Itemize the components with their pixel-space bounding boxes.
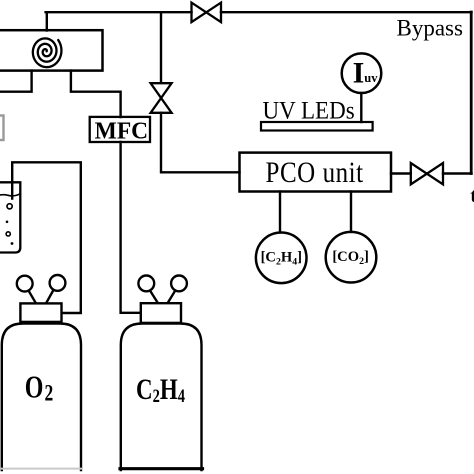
analyzer circle [CO2] — [326, 232, 377, 283]
C2H4 cylinder handle left — [138, 276, 158, 304]
label C2H4 on cylinder — [136, 372, 185, 406]
humidifier bubble 2 — [6, 221, 9, 224]
O2 cylinder handle left — [17, 276, 36, 304]
cut-off MFC box at left image edge — [0, 116, 4, 141]
C2H4 cylinder cap — [141, 303, 181, 323]
pump spiral — [33, 38, 62, 67]
svg-text:t: t — [470, 185, 474, 207]
humidifier bottle (cut off at image edge) — [0, 182, 20, 252]
analyzer circle [C2H4] — [256, 232, 307, 283]
wire: O2 regulator up and over to humidifier dip tube — [12, 162, 81, 313]
wire: top bypass pipe left segment — [46, 11, 192, 13]
wire: pump left port (cut off at image edge) — [0, 71, 32, 92]
O2 cylinder bottom edge — [2, 468, 81, 470]
wire: valve V2 down then right into PCO unit — [161, 113, 240, 173]
label O2 on cylinder — [25, 371, 53, 406]
O2 cylinder cap — [20, 303, 61, 322]
svg-text:Bypass: Bypass — [397, 16, 464, 41]
wire: MFC down to C2H4 cylinder regulator — [121, 142, 141, 313]
wire: valve V3 to bypass junction — [443, 172, 472, 174]
wire: PCO to C2H4 analyzer — [279, 192, 281, 233]
wire: PCO outlet to valve V3 — [391, 172, 411, 174]
label PCO unit — [266, 155, 364, 189]
wire: pump right port to MFC — [71, 71, 121, 117]
wire: top bypass pipe right segment — [221, 11, 472, 13]
svg-text:MFC: MFC — [95, 118, 148, 145]
valve V2 (inlet valve, vertical) — [151, 83, 172, 113]
svg-text:PCO unit: PCO unit — [266, 155, 364, 189]
humidifier water line — [0, 194, 20, 197]
wire: branch riser to valve V2 — [160, 12, 162, 83]
wire: PCO to CO2 analyzer — [350, 192, 352, 232]
humidifier bubble 3 — [6, 232, 10, 236]
label UV LEDs — [263, 97, 355, 125]
C2H4 cylinder bottom edge — [120, 467, 203, 470]
valve V1 (bypass valve, top) — [192, 3, 222, 23]
valve V3 (outlet valve) — [411, 163, 443, 184]
svg-text:[CO2]: [CO2] — [332, 249, 369, 267]
humidifier bubble 4 — [11, 242, 14, 245]
svg-text:UV LEDs: UV LEDs — [263, 97, 355, 125]
PCO unit box — [240, 153, 392, 192]
wire: radiometer stem — [360, 93, 362, 122]
UV LED bar — [261, 122, 373, 131]
radiometer circle Iuv — [342, 53, 382, 93]
pump box — [0, 30, 103, 70]
C2H4 cylinder body — [121, 324, 202, 471]
MFC box — [90, 117, 150, 142]
wire: pump outlet riser — [46, 12, 48, 30]
O2 cylinder body — [2, 324, 81, 471]
label MFC — [95, 118, 148, 145]
O2 cylinder handle right — [46, 275, 65, 303]
humidifier bubble 1 — [7, 204, 12, 209]
wire: bypass downcomer right edge — [470, 12, 473, 174]
C2H4 cylinder handle right — [168, 276, 187, 304]
